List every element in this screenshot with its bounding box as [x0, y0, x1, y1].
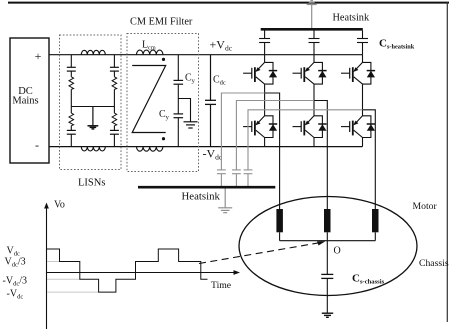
waveform trace Vo [47, 249, 208, 292]
capacitor (LISN left bottom) [67, 130, 76, 134]
IGBT Q6 (phase C lower) [341, 116, 375, 138]
LISNs dashed enclosure [60, 35, 122, 170]
choke core Z symbol [132, 66, 166, 133]
motor winding bar B [324, 209, 331, 232]
wire: parasitic lead 3 (gray) phase C to lower heatsink cap [248, 110, 363, 170]
svg-text:Chassis: Chassis [419, 258, 449, 269]
wire: heatsink ground stem (gray, to top) [311, 4, 313, 28]
inductor L1 (LISN top line) [81, 50, 105, 54]
svg-text:Motor: Motor [413, 201, 438, 212]
level guide line -Vdc [47, 291, 99, 293]
svg-text:-: - [35, 138, 39, 152]
wire: motor star bus [280, 240, 376, 242]
resistor (LISN left bottom) [70, 107, 72, 114]
wire: winding B stub [326, 232, 328, 240]
wire [70, 89, 72, 106]
ground (CM filter) [184, 122, 198, 128]
svg-text:Vo: Vo [54, 200, 65, 211]
LISN left branch wire (top) [70, 55, 72, 68]
motor chassis ellipse [239, 197, 417, 296]
capacitor Cs-heatsink 2 [309, 31, 320, 55]
capacitor (LISN left top) [67, 67, 76, 71]
polarity dot (top) [162, 58, 165, 61]
svg-text:LISNs: LISNs [78, 178, 105, 189]
svg-text:O: O [334, 246, 341, 257]
dashed arrow from waveform to node O [199, 243, 319, 264]
wire [70, 126, 72, 131]
ground (top heatsink, gray, pointing up) [307, 1, 317, 5]
motor winding bar C [372, 209, 379, 232]
resistor (LISN right top) [112, 77, 117, 90]
heatsink bar (top) [261, 28, 363, 31]
wire: lower heatsink ground stem (gray) [224, 189, 226, 208]
wire [70, 134, 72, 146]
level guide line Vdc/3 [47, 261, 60, 263]
IGBT Q4 (phase A lower) [243, 116, 277, 138]
svg-text:+: + [35, 49, 42, 63]
wire: -Vdc bottom rail from DC Mains to inverter [49, 146, 363, 148]
svg-text:Mains: Mains [12, 96, 38, 107]
resistor (LISN left top) [69, 77, 74, 90]
motor winding bar A [276, 209, 283, 232]
capacitor Cs-heatsink 3 [357, 31, 368, 55]
CM EMI Filter dashed enclosure [127, 34, 199, 172]
IGBT Q5 (phase B lower) [293, 116, 327, 138]
waveform Y axis [46, 205, 48, 329]
svg-text:Heatsink: Heatsink [182, 191, 221, 203]
waveform X axis [47, 272, 238, 274]
svg-text:Heatsink: Heatsink [333, 13, 370, 24]
wire: winding A stub [279, 232, 281, 240]
capacitor Cy (bottom) [174, 114, 184, 118]
wire: +Vdc top rail from DC Mains to inverter [49, 54, 363, 56]
ground (chassis) [322, 313, 333, 317]
inductor Lcm bottom winding [137, 147, 163, 152]
capacitor (parasitic, gray) 1 [217, 170, 226, 186]
polarity dot (bottom) [162, 137, 165, 140]
wire: inverter leg 1 vertical segments [264, 55, 266, 147]
wire: phase C output to motor [363, 110, 376, 209]
resistor (LISN right bottom) [113, 107, 115, 114]
wire: parasitic lead 1 (gray) phase A to lower heatsink cap [221, 93, 264, 170]
capacitor Cy (top) [174, 80, 184, 84]
capacitor Cs-heatsink 1 [259, 31, 270, 55]
svg-text:Time: Time [211, 280, 231, 291]
wire: neutral to chassis cap [326, 241, 328, 275]
wire: inverter leg 2 vertical segments [313, 55, 315, 147]
wire: chassis cap to ground [326, 278, 328, 312]
LISN right branch wire (top) [113, 55, 115, 68]
wire: winding C stub [374, 232, 376, 240]
wire [113, 126, 115, 131]
svg-text:CM EMI Filter: CM EMI Filter [130, 17, 193, 28]
capacitor (LISN right top) [110, 67, 119, 71]
wire [70, 71, 72, 77]
ground (lower heatsink, gray) [218, 208, 232, 213]
IGBT Q2 (phase B upper) [293, 62, 327, 84]
wire: parasitic lead 2 (gray) phase B to lower heatsink cap [236, 101, 314, 170]
wire: inverter leg 3 vertical segments [362, 55, 364, 147]
IGBT Q3 (phase C upper) [341, 62, 375, 84]
wire [113, 89, 115, 106]
capacitor Cs-chassis [321, 274, 333, 278]
wire: Cy midpoint to ground [178, 99, 190, 122]
inductor L2 (LISN bottom line) [81, 147, 105, 151]
capacitor (LISN right bottom) [110, 130, 119, 134]
capacitor (parasitic, gray) 3 [244, 170, 253, 186]
wire: phase A output to motor [265, 93, 280, 209]
frame right border [446, 2, 448, 322]
level guide line -Vdc/3 [47, 278, 80, 280]
capacitor Cdc [210, 55, 212, 101]
wire [113, 71, 115, 77]
heatsink bar (bottom) [138, 186, 275, 189]
wire [113, 134, 115, 146]
DC Mains source box [10, 38, 49, 163]
IGBT Q1 (phase A upper) [243, 62, 277, 84]
wire: phase B output to motor [314, 101, 327, 210]
wire: LISN middle bus [71, 106, 114, 108]
ground (LISN) [88, 126, 99, 129]
wire: Cy branch vertical [177, 55, 179, 147]
frame top border [8, 2, 449, 4]
capacitor (parasitic, gray) 2 [232, 170, 241, 186]
inductor Lcm top winding [137, 50, 163, 55]
wire: LISN ground stem [92, 107, 94, 126]
